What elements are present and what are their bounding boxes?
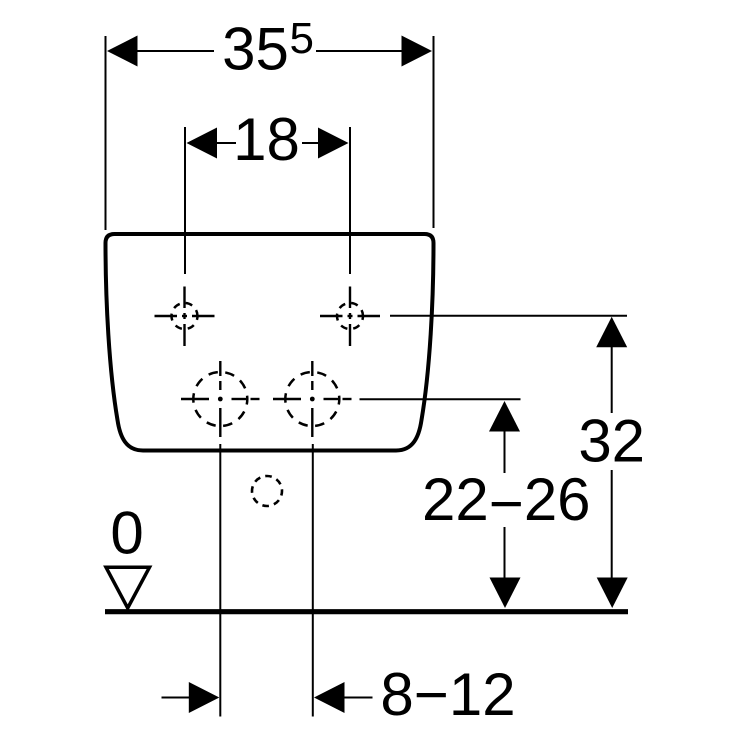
crosshair horizontal of top-left hole [155, 315, 215, 317]
crosshair vertical of top-right hole [349, 287, 351, 347]
svg-text:5: 5 [290, 14, 314, 63]
dimension line 22-26 upper segment [504, 430, 506, 473]
fixing hole bottom-left dashed circle [193, 372, 247, 426]
label 18 [233, 106, 300, 173]
center dot of bottom-right hole [310, 397, 315, 402]
dimension line 22-26 lower segment [504, 527, 506, 580]
dimension line 35.5 left segment [135, 50, 214, 52]
dimension line 8-12 left tail [162, 697, 193, 699]
label superscript 5 [290, 14, 314, 63]
arrowhead up of dim 22-26 [489, 401, 520, 432]
extension line right of dim 18 [349, 127, 351, 274]
dimension line 35.5 right segment [316, 50, 404, 52]
dimension line 8-12 right tail [342, 697, 373, 699]
arrowhead down of dim 32 [597, 578, 628, 609]
label 0 datum [110, 500, 143, 567]
svg-text:35: 35 [222, 16, 289, 83]
fixing hole bottom-right dashed circle [285, 372, 339, 426]
crosshair vertical of bottom-left hole [219, 361, 221, 437]
extension line left of dim 18 [184, 127, 186, 274]
mounting hole top-right dashed circle [337, 303, 363, 329]
arrowhead right of dim 35.5 [402, 36, 433, 67]
crosshair vertical of bottom-right hole [311, 361, 313, 437]
leader line from top-right hole to dim 32 [390, 315, 627, 317]
extension line left of dim 35.5 [105, 36, 107, 230]
label 35 [222, 16, 289, 83]
svg-text:22−26: 22−26 [422, 466, 591, 537]
svg-text:8−12: 8−12 [380, 661, 515, 728]
center dot of bottom-left hole [218, 397, 223, 402]
arrowhead left of dim 18 [187, 128, 218, 159]
leader line from bottom-right hole to dim 22-26 [360, 398, 521, 400]
arrowhead right of dim 18 [318, 128, 349, 159]
crosshair horizontal of bottom-left hole [181, 398, 260, 400]
label 32 [578, 408, 645, 475]
label 22-26 [422, 466, 591, 537]
datum triangle [106, 567, 150, 608]
crosshair vertical of top-left hole [183, 287, 185, 347]
axis line below bottom-right hole [312, 444, 314, 717]
drain outlet dashed circle [252, 476, 282, 506]
arrowhead left of dim 35.5 [107, 36, 138, 67]
dimension line 18 right segment [302, 142, 320, 144]
svg-text:32: 32 [578, 408, 645, 475]
arrowhead left-pointing of dim 8-12 [314, 682, 345, 713]
arrowhead up of dim 32 [596, 317, 627, 348]
floor line [105, 609, 628, 614]
extension line right of dim 35.5 [433, 36, 435, 228]
crosshair horizontal of bottom-right hole [273, 398, 352, 400]
crosshair horizontal of top-right hole [320, 315, 380, 317]
dimension line 32 lower segment [611, 470, 613, 580]
label 8-12 [380, 661, 515, 728]
svg-text:18: 18 [233, 106, 300, 173]
ceramic body outline [106, 234, 434, 451]
mounting hole top-left dashed circle [172, 303, 198, 329]
axis line below bottom-left hole [219, 444, 221, 717]
arrowhead right-pointing of dim 8-12 [189, 682, 220, 713]
dimension line 32 upper segment [611, 347, 613, 413]
dimension line 18 left segment [216, 142, 236, 144]
arrowhead down of dim 22-26 [490, 578, 521, 609]
svg-text:0: 0 [110, 500, 143, 567]
